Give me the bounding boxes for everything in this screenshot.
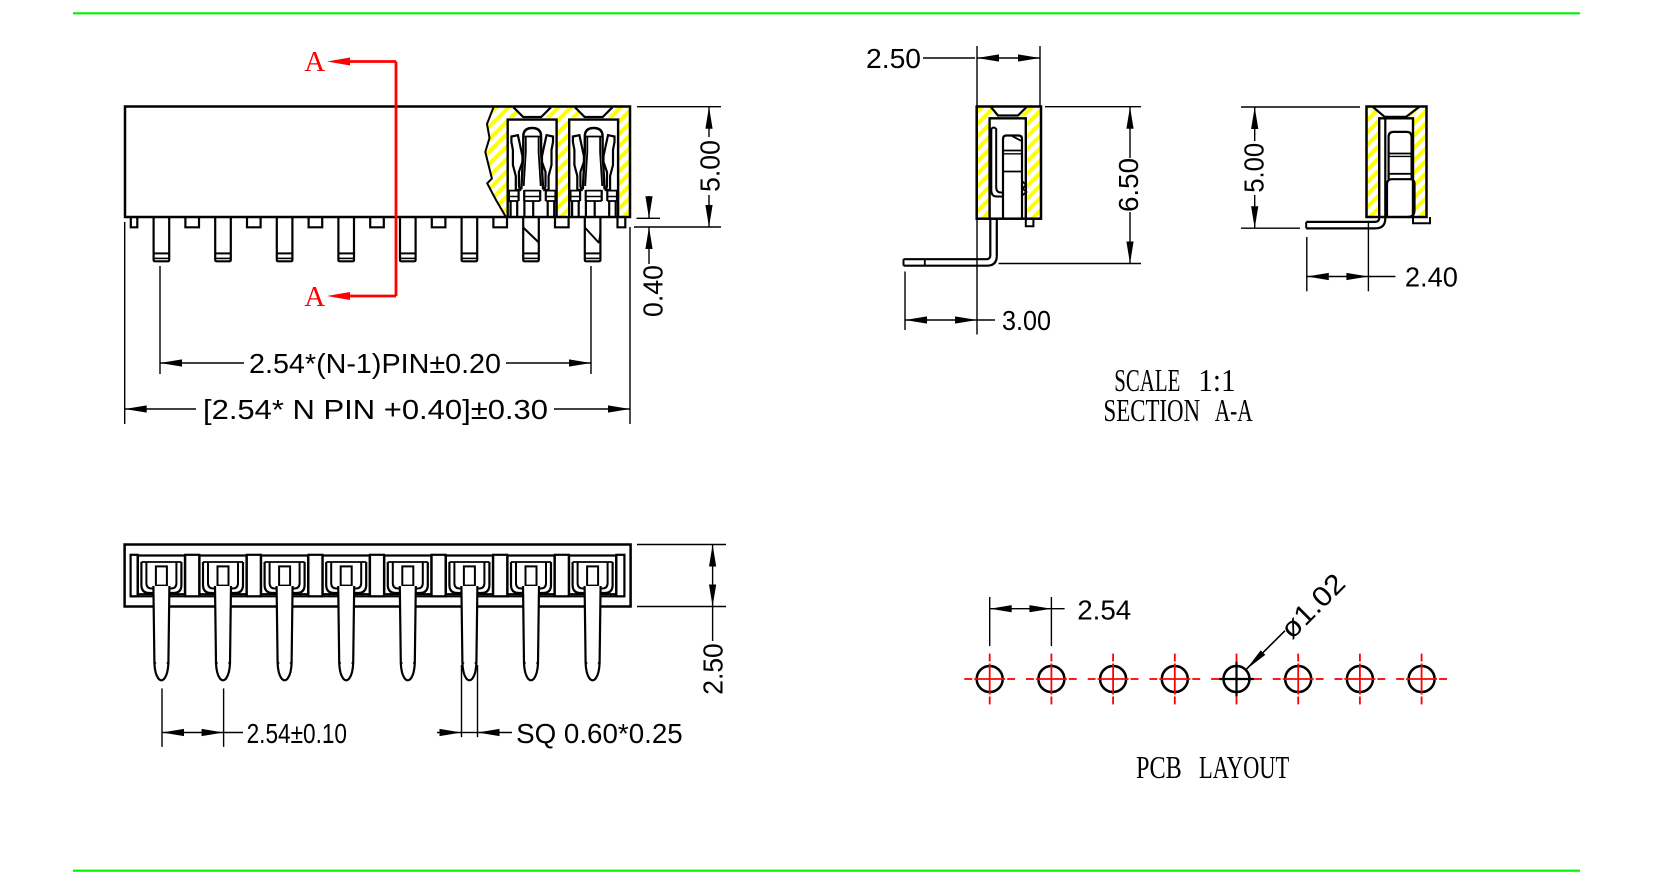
svg-text:A: A <box>304 46 325 78</box>
svg-text:SECTION: SECTION <box>1104 392 1201 428</box>
svg-text:2.50: 2.50 <box>698 643 729 694</box>
svg-text:2.50: 2.50 <box>866 43 921 74</box>
svg-text:2.54: 2.54 <box>1077 595 1131 626</box>
svg-text:3.00: 3.00 <box>1002 305 1051 336</box>
svg-text:0.40: 0.40 <box>638 265 669 317</box>
svg-text:2.40: 2.40 <box>1405 262 1458 293</box>
svg-text:A: A <box>304 281 325 313</box>
svg-text:6.50: 6.50 <box>1113 158 1144 212</box>
svg-text:2.54*(N-1)PIN±0.20: 2.54*(N-1)PIN±0.20 <box>249 348 501 379</box>
svg-text:A-A: A-A <box>1215 392 1253 428</box>
svg-text:[2.54* N PIN +0.40]±0.30: [2.54* N PIN +0.40]±0.30 <box>203 394 548 425</box>
svg-text:PCB: PCB <box>1136 749 1182 785</box>
svg-text:5.00: 5.00 <box>1239 143 1270 193</box>
svg-text:LAYOUT: LAYOUT <box>1199 749 1290 785</box>
svg-text:5.00: 5.00 <box>695 140 726 192</box>
svg-text:2.54±0.10: 2.54±0.10 <box>247 718 347 749</box>
svg-text:SQ 0.60*0.25: SQ 0.60*0.25 <box>516 718 683 749</box>
